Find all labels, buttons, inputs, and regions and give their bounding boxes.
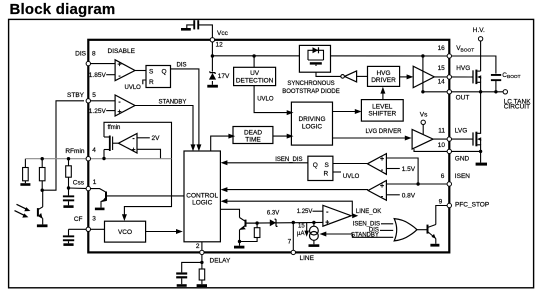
svg-text:RFmin: RFmin <box>65 148 85 155</box>
svg-text:R: R <box>149 79 154 86</box>
svg-text:UVLO: UVLO <box>257 96 274 102</box>
svg-text:UV: UV <box>250 70 260 77</box>
svg-text:4: 4 <box>92 147 96 154</box>
svg-text:LEVEL: LEVEL <box>372 104 393 111</box>
svg-text:H.V.: H.V. <box>473 27 485 34</box>
svg-text:Css: Css <box>73 180 85 187</box>
svg-text:DRIVER: DRIVER <box>371 77 396 84</box>
svg-text:LINE_OK: LINE_OK <box>356 209 381 215</box>
svg-text:SYNCHRONOUS: SYNCHRONOUS <box>287 81 334 87</box>
svg-text:DRIVING: DRIVING <box>298 116 325 123</box>
svg-text:1.25V: 1.25V <box>297 209 313 215</box>
svg-text:14: 14 <box>438 78 446 85</box>
svg-text:0.8V: 0.8V <box>402 193 416 200</box>
svg-text:Vs: Vs <box>420 112 428 119</box>
svg-text:+: + <box>131 147 135 154</box>
svg-text:UVLO: UVLO <box>125 85 142 91</box>
svg-text:15: 15 <box>298 224 305 230</box>
svg-text:STBY: STBY <box>67 92 85 99</box>
svg-text:Q: Q <box>162 69 167 76</box>
svg-text:1.85V: 1.85V <box>89 72 107 79</box>
svg-text:ISEN_DIS: ISEN_DIS <box>275 157 302 163</box>
svg-text:1: 1 <box>93 179 97 186</box>
svg-text:TIME: TIME <box>245 137 261 144</box>
svg-text:17V: 17V <box>218 73 230 80</box>
svg-text:Vcc: Vcc <box>217 30 229 37</box>
svg-text:1.5V: 1.5V <box>402 166 416 173</box>
svg-text:UVLO: UVLO <box>343 174 360 180</box>
svg-text:LOGIC: LOGIC <box>192 200 213 207</box>
svg-text:LOGIC: LOGIC <box>302 123 323 130</box>
svg-text:8: 8 <box>92 51 96 58</box>
svg-text:DISABLE: DISABLE <box>108 48 136 55</box>
svg-text:+: + <box>380 183 384 190</box>
svg-text:+: + <box>325 220 329 227</box>
svg-text:DIS: DIS <box>177 63 187 69</box>
svg-text:9: 9 <box>439 199 443 206</box>
svg-text:ISEN: ISEN <box>455 173 470 180</box>
svg-text:µA: µA <box>297 231 304 237</box>
svg-text:BOOTSTRAP DIODE: BOOTSTRAP DIODE <box>282 89 340 95</box>
svg-text:DETECTION: DETECTION <box>236 77 274 84</box>
svg-text:10: 10 <box>438 142 446 149</box>
svg-text:2: 2 <box>196 243 200 250</box>
svg-text:HVG: HVG <box>376 70 390 77</box>
svg-text:S: S <box>325 162 330 169</box>
svg-text:CIRCUIT: CIRCUIT <box>504 104 530 111</box>
svg-text:PFC_STOP: PFC_STOP <box>455 201 489 208</box>
svg-text:+: + <box>380 156 384 163</box>
svg-text:HVG: HVG <box>456 65 470 72</box>
svg-text:ffmin: ffmin <box>108 125 121 131</box>
svg-text:16: 16 <box>438 45 446 52</box>
svg-text:12: 12 <box>216 42 224 49</box>
svg-text:2V: 2V <box>152 135 161 142</box>
svg-text:5: 5 <box>92 92 96 99</box>
svg-text:1.25V: 1.25V <box>89 108 107 115</box>
svg-text:Q: Q <box>313 162 318 169</box>
svg-text:R: R <box>324 171 329 178</box>
svg-text:LVG DRIVER: LVG DRIVER <box>366 129 403 135</box>
svg-text:STANDBY: STANDBY <box>159 100 187 106</box>
svg-text:DEAD: DEAD <box>244 130 262 137</box>
svg-text:3: 3 <box>92 215 96 222</box>
svg-text:LVG: LVG <box>455 128 468 135</box>
svg-text:GND: GND <box>455 156 470 163</box>
svg-text:STANDBY: STANDBY <box>351 233 379 239</box>
svg-text:LINE: LINE <box>300 255 315 262</box>
svg-text:Block diagram: Block diagram <box>10 1 116 18</box>
svg-text:DIS: DIS <box>75 51 87 58</box>
svg-text:OUT: OUT <box>456 94 470 101</box>
svg-text:VCO: VCO <box>118 229 132 236</box>
svg-text:DELAY: DELAY <box>210 257 231 264</box>
svg-text:SHIFTER: SHIFTER <box>368 111 396 118</box>
svg-text:CONTROL: CONTROL <box>186 193 218 200</box>
svg-text:15: 15 <box>438 65 446 72</box>
svg-text:+: + <box>117 109 121 116</box>
svg-text:11: 11 <box>438 128 445 135</box>
svg-text:7: 7 <box>288 239 292 246</box>
svg-text:+: + <box>117 62 121 69</box>
svg-text:CF: CF <box>74 216 83 223</box>
svg-text:6.3V: 6.3V <box>267 211 279 217</box>
svg-text:S: S <box>149 69 154 76</box>
svg-text:6: 6 <box>441 173 445 180</box>
